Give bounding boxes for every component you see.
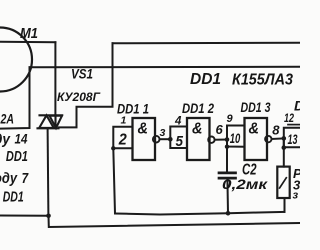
resistor R body <box>277 167 289 198</box>
junction DD1.3 output / DD1.4 inputs / resistor <box>282 136 287 141</box>
wire DD1.3 output <box>272 137 284 140</box>
junction C2 to bottom rail <box>226 211 231 216</box>
motor M1 <box>0 28 32 92</box>
junction DD1.3 pin10 wire <box>225 145 229 149</box>
wire DD1.3 output to resistor <box>283 138 285 167</box>
wire DD1.1 output <box>160 138 171 140</box>
wire VS1 anode rail <box>30 66 301 69</box>
wire bottom rail 1 (DD1.1 inputs to resistor) <box>115 212 285 215</box>
wire triac cathode down <box>47 128 50 215</box>
svg-text:К155ЛА3: К155ЛА3 <box>232 72 293 89</box>
svg-text:0,2мк: 0,2мк <box>222 176 268 192</box>
wire DD1.4 inputs <box>284 128 300 148</box>
wire DD1.2 output <box>215 139 227 141</box>
wire DD1.1 inputs to bottom rail <box>113 148 115 213</box>
svg-text:10: 10 <box>230 130 241 146</box>
svg-text:КУ208Г: КУ208Г <box>57 90 101 104</box>
svg-text:3: 3 <box>160 127 166 139</box>
svg-text:&: & <box>192 121 203 138</box>
wire motor-to-triac vertical <box>54 42 56 115</box>
svg-text:14: 14 <box>15 132 28 147</box>
svg-text:7: 7 <box>22 170 29 187</box>
junction DD1.1 output to DD1.2 inputs <box>168 137 173 142</box>
svg-text:оду: оду <box>0 171 18 187</box>
svg-text:VS1: VS1 <box>71 66 93 82</box>
svg-text:5: 5 <box>176 133 184 150</box>
junction DD1.1 tied inputs <box>111 146 115 150</box>
svg-text:DD1: DD1 <box>3 190 24 206</box>
svg-text:12: 12 <box>284 113 294 125</box>
gate DD1.2 body <box>187 118 210 160</box>
wire DD1.3 inputs <box>227 126 245 147</box>
wire DD1.2 output to C2 <box>226 139 228 172</box>
wire C2 to bottom rail <box>226 178 229 213</box>
svg-text:8: 8 <box>272 122 280 137</box>
svg-text:ду: ду <box>0 132 11 148</box>
svg-text:6: 6 <box>216 122 224 137</box>
gate DD1.3 body <box>245 118 268 160</box>
svg-text:DD1: DD1 <box>6 149 28 165</box>
svg-text:DD1 3: DD1 3 <box>241 99 271 115</box>
svg-text:&: & <box>249 121 260 138</box>
junction DD1.2 output / DD1.3 inputs / C2 <box>225 137 230 142</box>
gate DD1.1 output bubble <box>153 136 160 143</box>
svg-text:з: з <box>293 190 299 202</box>
svg-text:1: 1 <box>121 115 127 127</box>
svg-text:9: 9 <box>227 113 234 125</box>
wire bottom rail 2 (left feed, elbow, to right edge) <box>0 216 300 228</box>
junction DD1.4 pin13 wire <box>282 145 287 150</box>
svg-text:M1: M1 <box>20 25 38 42</box>
wire triac gate step <box>59 43 113 127</box>
triac VS1 symbol <box>38 115 63 128</box>
svg-text:2A: 2A <box>0 112 14 127</box>
wire top rail <box>113 42 301 45</box>
capacitor C2 plates <box>219 172 236 175</box>
wire motor top lead <box>0 41 55 44</box>
wire DD1.4 gate body top fragment <box>288 124 300 126</box>
wire fuse 2A to VS1 anode <box>0 67 30 128</box>
wire resistor to bottom rail <box>284 198 286 212</box>
svg-text:DD1 2: DD1 2 <box>182 100 214 116</box>
svg-text:2: 2 <box>118 131 127 148</box>
svg-text:&: & <box>138 121 149 138</box>
gate DD1.2 output bubble <box>208 137 214 143</box>
svg-text:DD1: DD1 <box>190 71 221 88</box>
svg-text:13: 13 <box>288 131 298 147</box>
svg-text:D: D <box>294 98 300 114</box>
junction triac cathode / bottom feed <box>46 214 51 219</box>
wire DD1.1 inputs <box>113 127 132 149</box>
gate DD1.1 body <box>133 118 156 160</box>
resistor diagonal mark <box>280 178 287 188</box>
wire DD1.2 inputs <box>170 127 187 149</box>
svg-text:4: 4 <box>174 116 182 128</box>
gate DD1.3 output bubble <box>265 136 271 142</box>
